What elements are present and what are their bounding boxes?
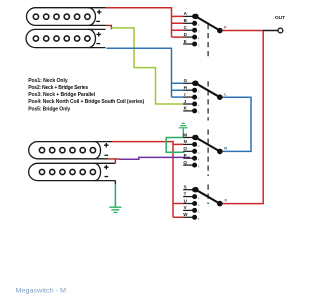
svg-text:Megaswitch - M: Megaswitch - M: [16, 289, 67, 295]
svg-text:N: N: [184, 139, 187, 144]
svg-text:I: I: [184, 92, 185, 97]
svg-text:P: P: [184, 153, 187, 158]
svg-text:H: H: [184, 85, 187, 90]
svg-text:OUT: OUT: [275, 15, 285, 21]
svg-text:V: V: [184, 205, 187, 210]
svg-text:T: T: [184, 191, 187, 196]
svg-text:O: O: [183, 146, 187, 151]
svg-text:Pos2: Neck + Bridge Series: Pos2: Neck + Bridge Series: [28, 85, 88, 91]
svg-text:Pos1: Neck Only: Pos1: Neck Only: [28, 78, 68, 84]
svg-text:S: S: [184, 185, 187, 190]
svg-text:U: U: [184, 198, 187, 203]
svg-text:Q: Q: [183, 160, 187, 165]
svg-text:W: W: [183, 212, 188, 217]
svg-text:E: E: [184, 39, 187, 44]
svg-text:Pos4: Neck North Coil + Bridge: Pos4: Neck North Coil + Bridge South Coi…: [28, 99, 144, 105]
svg-text:G: G: [184, 78, 188, 83]
svg-text:Pos5: Bridge Only: Pos5: Bridge Only: [28, 106, 70, 112]
svg-text:X: X: [224, 198, 227, 203]
svg-text:M: M: [183, 132, 187, 137]
svg-text:Pos3: Neck + Bridge Parallel: Pos3: Neck + Bridge Parallel: [28, 92, 96, 98]
svg-text:R: R: [224, 146, 227, 151]
